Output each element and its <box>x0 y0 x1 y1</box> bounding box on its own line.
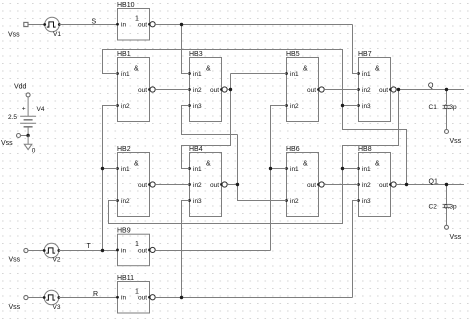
svg-text:out: out <box>138 295 147 302</box>
svg-text:HB7: HB7 <box>358 51 372 58</box>
svg-text:in: in <box>121 22 126 29</box>
svg-text:in2: in2 <box>290 198 299 205</box>
wire HB1.out to HB3.in2 <box>155 89 189 91</box>
svg-text:C2: C2 <box>429 203 438 210</box>
svg-text:C1: C1 <box>429 104 438 111</box>
svg-text:in: in <box>121 295 126 302</box>
junction Tbar to HB6.in1 <box>269 167 272 170</box>
svg-text:HB2: HB2 <box>117 146 131 153</box>
svg-text:Q: Q <box>428 82 434 89</box>
svg-text:&: & <box>206 161 211 168</box>
svg-text:in2: in2 <box>362 182 371 189</box>
pulse voltage source V2 <box>24 243 61 263</box>
svg-text:T: T <box>87 243 92 250</box>
svg-text:out: out <box>138 182 147 189</box>
svg-text:&: & <box>134 66 139 73</box>
inverter HB9 <box>116 228 155 266</box>
svg-text:&: & <box>206 66 211 73</box>
node R wire: V3 to HB11.in <box>59 297 118 299</box>
svg-text:in2: in2 <box>121 103 130 110</box>
svg-text:0: 0 <box>32 148 36 155</box>
svg-text:out: out <box>138 247 147 254</box>
svg-text:Q1: Q1 <box>429 179 438 186</box>
svg-text:Vss: Vss <box>9 304 21 311</box>
wire HB6.out to HB8.in2 <box>324 184 358 186</box>
terminal Vdd <box>26 93 30 97</box>
inverter HB11 <box>116 275 155 313</box>
junction Qmbar at HB4.out <box>236 183 239 186</box>
pulse voltage source V3 <box>24 290 61 311</box>
svg-text:2.5: 2.5 <box>8 114 17 121</box>
junction Qm at HB3.out <box>229 88 232 91</box>
wire net Qm: HB3.out to HB5.in1 and HB4.in1 <box>182 74 287 169</box>
svg-text:Vss: Vss <box>9 257 21 264</box>
svg-text:out: out <box>379 87 388 94</box>
svg-text:&: & <box>375 66 380 73</box>
svg-text:in2: in2 <box>290 103 299 110</box>
svg-text:HB10: HB10 <box>117 2 135 9</box>
svg-text:V1: V1 <box>53 31 61 38</box>
svg-text:in1: in1 <box>193 166 202 173</box>
svg-text:HB8: HB8 <box>358 146 372 153</box>
terminal Vss (C2) <box>445 225 449 229</box>
svg-text:out: out <box>138 22 147 29</box>
svg-text:in1: in1 <box>193 71 202 78</box>
svg-text:in2: in2 <box>193 182 202 189</box>
junction Q feedback <box>397 88 400 91</box>
wire net Q1: HB8.out to output, C2, HB7.in3, HB1.in1 <box>103 50 465 204</box>
svg-text:V2: V2 <box>53 256 61 263</box>
NAND gate HB7 <box>357 51 396 122</box>
svg-text:out: out <box>307 87 316 94</box>
svg-text:in3: in3 <box>362 198 371 205</box>
svg-text:in1: in1 <box>290 166 299 173</box>
junction Q1 feedback <box>405 183 408 186</box>
svg-text:HB1: HB1 <box>117 51 131 58</box>
wire HB5.out to HB7.in2 <box>324 89 358 91</box>
svg-text:&: & <box>303 161 308 168</box>
capacitor C2 0.3p <box>429 203 458 225</box>
svg-text:HB4: HB4 <box>189 146 203 153</box>
NAND gate HB5 <box>285 51 324 122</box>
svg-text:Vdd: Vdd <box>14 84 27 91</box>
wire net Q: HB7.out to output, C1, HB8.in1, HB2.in2 <box>109 90 465 224</box>
node S wire: V1 to HB10.in <box>59 24 117 26</box>
svg-text:0.3p: 0.3p <box>444 203 457 210</box>
svg-text:Vss: Vss <box>450 234 462 241</box>
NAND gate HB8 <box>357 146 396 217</box>
svg-text:out: out <box>210 87 219 94</box>
pulse voltage source V1 <box>24 17 62 38</box>
NAND gate HB6 <box>285 146 324 217</box>
svg-text:out: out <box>307 182 316 189</box>
wire net T: to HB1.in2 and HB2.in1 <box>103 106 118 251</box>
svg-text:in3: in3 <box>193 103 202 110</box>
junction Q to HB8.in1 <box>341 167 344 170</box>
svg-text:+: + <box>22 107 26 113</box>
inverter HB10 <box>116 2 155 40</box>
wire net Tbar: HB9.out to HB6.in1 and HB5.in2 <box>155 106 286 251</box>
battery V4 2.5V <box>8 97 45 136</box>
svg-text:0.3p: 0.3p <box>444 104 457 111</box>
svg-text:in2: in2 <box>121 198 130 205</box>
ground 0 <box>24 136 36 155</box>
svg-text:out: out <box>210 182 219 189</box>
svg-text:HB9: HB9 <box>117 228 131 235</box>
svg-text:HB6: HB6 <box>286 146 300 153</box>
svg-text:&: & <box>134 161 139 168</box>
svg-text:Vss: Vss <box>1 140 13 147</box>
svg-text:out: out <box>138 87 147 94</box>
junction T to HB2.in1 <box>101 167 104 170</box>
terminal Vss (C1) <box>445 130 449 134</box>
svg-text:V4: V4 <box>37 106 45 113</box>
svg-text:in1: in1 <box>290 71 299 78</box>
junction Q1 to HB7.in3 <box>341 104 344 107</box>
junction T tap <box>101 249 104 252</box>
svg-text:HB5: HB5 <box>286 51 300 58</box>
wire Vss terminal to battery minus <box>21 135 29 137</box>
NAND gate HB4 <box>188 146 227 217</box>
svg-text:in: in <box>121 247 126 254</box>
svg-text:R: R <box>93 291 98 298</box>
NAND gate HB3 <box>188 51 227 122</box>
svg-text:in1: in1 <box>121 166 130 173</box>
wire HB2.out to HB4.in2 <box>155 184 189 186</box>
node T wire: V2 to HB9.in <box>59 250 118 252</box>
junction Sbar at x181.5 <box>180 23 183 26</box>
svg-text:Vss: Vss <box>450 138 462 145</box>
svg-text:in2: in2 <box>193 87 202 94</box>
svg-text:HB11: HB11 <box>117 275 134 282</box>
wire net Rbar: HB11.out to HB4.in3 and HB8.in3 <box>155 201 358 298</box>
svg-text:Vss: Vss <box>8 32 20 39</box>
svg-text:in1: in1 <box>362 71 371 78</box>
svg-text:out: out <box>379 182 388 189</box>
terminal Vss (battery) <box>17 134 21 138</box>
svg-text:V3: V3 <box>53 304 61 311</box>
wire net Sbar: HB10.out to HB3.in1 and HB7.in1 <box>155 25 358 74</box>
svg-text:in3: in3 <box>362 103 371 110</box>
junction Q1 to C2 <box>445 183 448 186</box>
junction battery minus node <box>26 134 29 137</box>
svg-text:&: & <box>303 66 308 73</box>
capacitor C1 0.3p <box>429 104 458 130</box>
svg-text:&: & <box>375 161 380 168</box>
wire net Qmbar: HB4.out to HB3.in3 and HB6.in2 <box>182 106 287 201</box>
svg-text:in1: in1 <box>121 71 130 78</box>
svg-text:in3: in3 <box>193 198 202 205</box>
svg-text:in1: in1 <box>362 166 371 173</box>
NAND gate HB1 <box>116 51 155 122</box>
junction Rbar at x181.5 <box>180 296 183 299</box>
svg-text:HB3: HB3 <box>189 51 203 58</box>
svg-text:S: S <box>92 18 97 25</box>
NAND gate HB2 <box>116 146 155 217</box>
svg-text:in2: in2 <box>362 87 371 94</box>
junction Q to C1 <box>445 88 448 91</box>
